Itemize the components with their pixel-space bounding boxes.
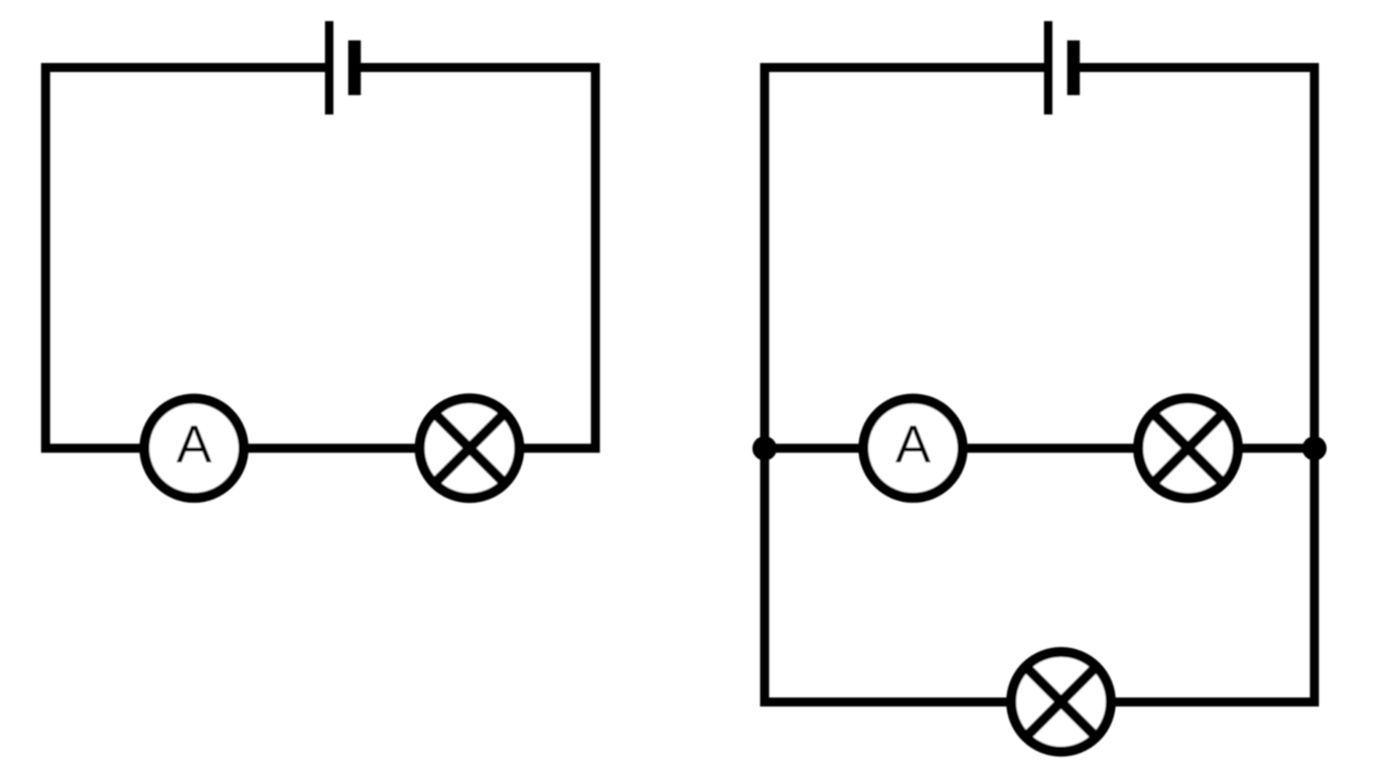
svg-text:A: A <box>895 415 931 474</box>
svg-text:A: A <box>176 415 212 474</box>
